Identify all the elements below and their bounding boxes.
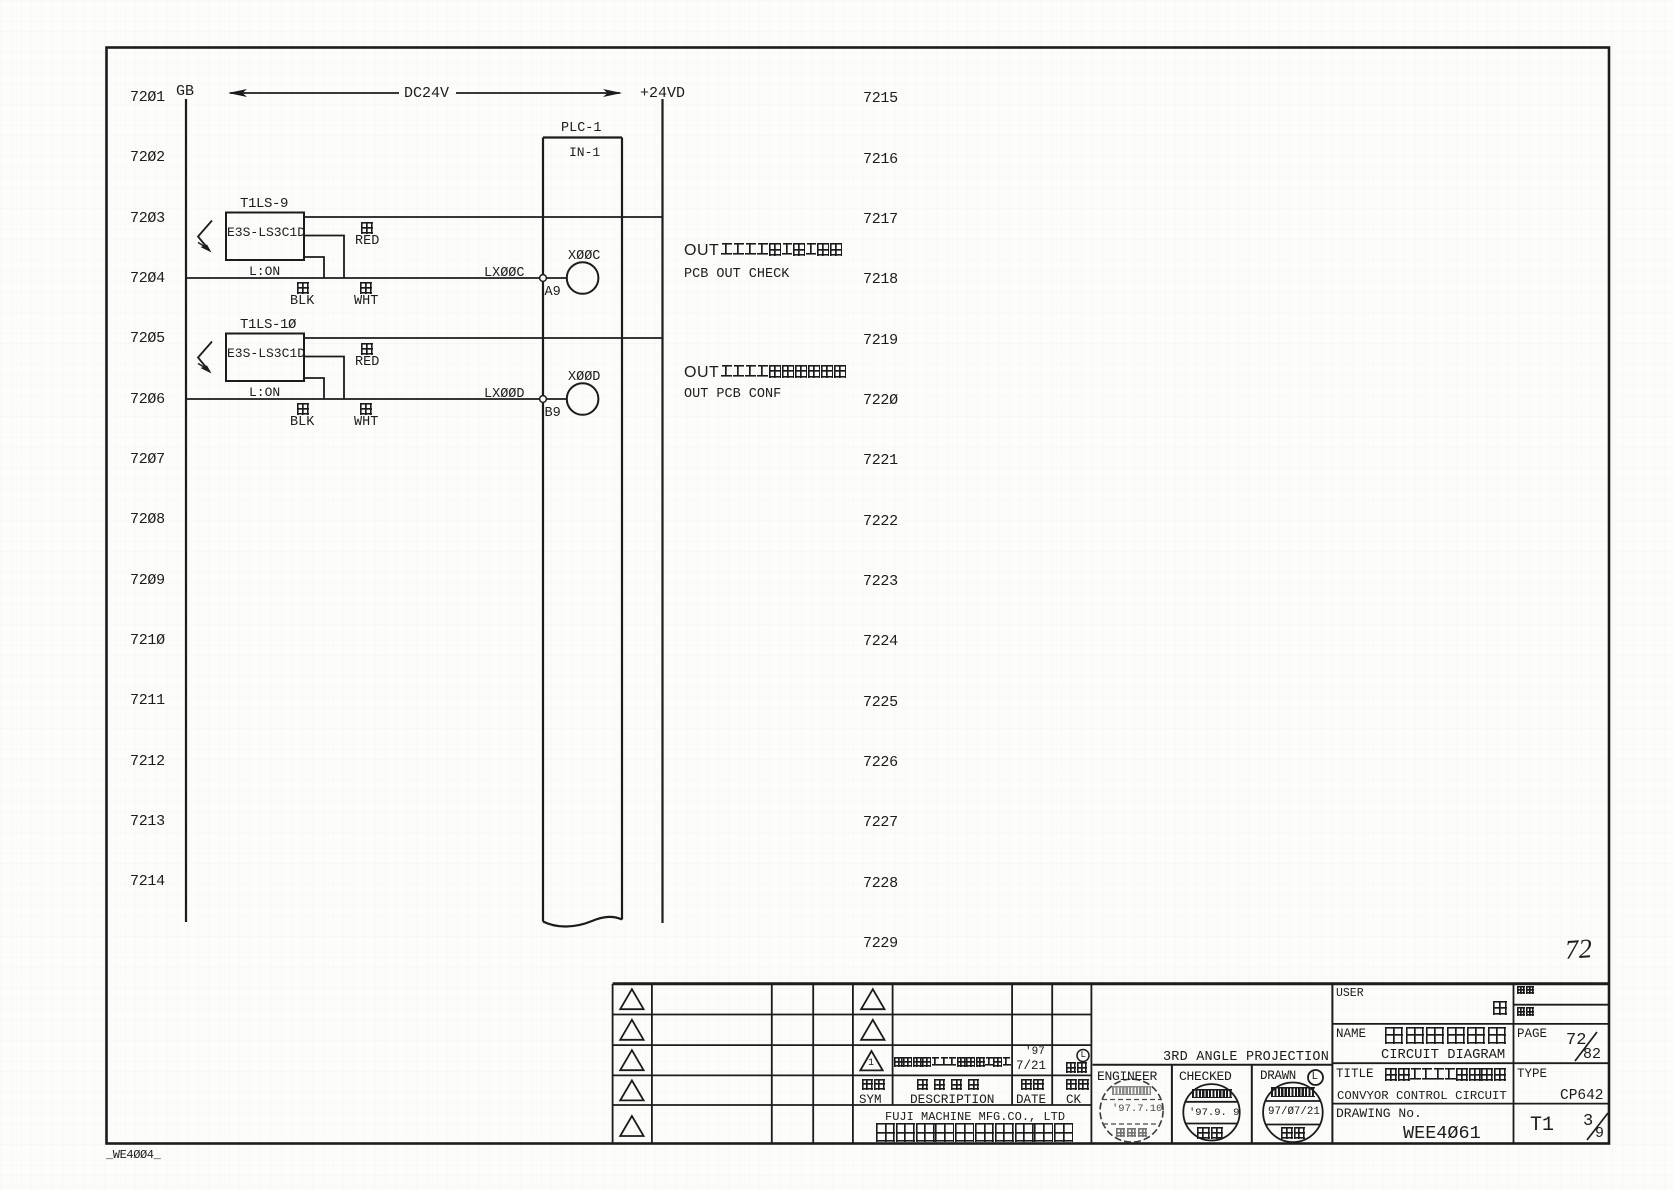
label aka RED sensor1 [361, 222, 373, 234]
line number 7229 [863, 936, 898, 951]
note OUT conveyor kiban tochaku kakunin (JP) [684, 365, 846, 381]
wire WHT sensor2 [304, 357, 344, 400]
line number 7226 [863, 755, 898, 770]
line number 7221 [863, 453, 898, 468]
label GB [176, 84, 194, 99]
company fuji kikai seizou kabushiki gaisha (JP) [876, 1123, 1073, 1143]
revision triangle R2 [861, 1020, 884, 1040]
line number 7219 [863, 333, 898, 348]
rev1 date '97 7/21 [1025, 1047, 1045, 1058]
page 72 over 82 [1566, 1032, 1586, 1049]
line number 7222 [863, 514, 898, 529]
line number 7211 [130, 693, 165, 708]
header ENGINEER [1097, 1070, 1157, 1083]
line number 7220 [863, 393, 898, 408]
title block top rule [613, 982, 1609, 985]
field bunban (JP) [1517, 986, 1534, 995]
line number 7212 [130, 754, 165, 769]
label T1LS-9 [240, 197, 288, 211]
label shiro WHT sensor2 [360, 403, 372, 415]
value E3S-LS3C1D sensor1 [227, 226, 305, 239]
rev1 CK L mark circle [1077, 1050, 1089, 1062]
sensor T1LS-10 beam arrow [198, 342, 212, 374]
line number 7201 [130, 90, 165, 105]
sheet fraction slash [1587, 1113, 1608, 1140]
label X00D [568, 371, 600, 385]
line number 7210 [130, 633, 165, 648]
wire node to lamp X00C [546, 277, 566, 279]
line number 7204 [130, 271, 165, 286]
type CP642 [1560, 1089, 1604, 1104]
line number 7227 [863, 815, 898, 830]
field DRAWING No. [1336, 1107, 1422, 1120]
stamp CHECKED contents [1192, 1089, 1232, 1098]
line number 7203 [130, 211, 165, 226]
input circle X00D [567, 383, 599, 415]
wire RED row 7203 [304, 216, 663, 218]
revision triangle R1 [861, 989, 884, 1009]
line number 7228 [863, 876, 898, 891]
drawn L letter [1312, 1072, 1319, 1083]
stamp DRAWN contents [1271, 1087, 1315, 1097]
label kuro BLK sensor1 [297, 282, 309, 294]
denki kairo senzu (JP) [1385, 1027, 1506, 1044]
label kuro BLK sensor2 [297, 403, 309, 415]
kiban conveyor seigyo kairo (JP) [1385, 1068, 1506, 1081]
header kigou SYM [862, 1079, 885, 1090]
line number 7215 [863, 91, 898, 106]
revision triangle L5 [620, 1116, 643, 1136]
wire BLK sensor1 [304, 257, 324, 278]
PLC-1 IN-1 column box [543, 138, 622, 927]
drawing number WEE4061 [1403, 1125, 1481, 1144]
revision triangle L3 [620, 1050, 643, 1070]
header CHECKED [1179, 1070, 1232, 1083]
label DC24V [404, 86, 449, 101]
field TITLE [1336, 1068, 1374, 1081]
note PCB OUT CHECK [684, 268, 789, 282]
stamp DRAWN [1263, 1083, 1323, 1143]
pin B9 [545, 407, 561, 421]
note OUT conveyor haraidashi kakunin (JP) [684, 243, 842, 259]
tono (JP) [1493, 1001, 1507, 1015]
label aka RED sensor2 [361, 343, 373, 355]
wire row 7206 LX00D [186, 398, 540, 400]
bus +24VD right vertical [661, 99, 663, 923]
line number 7208 [130, 512, 165, 527]
rev1 number in triangle [868, 1059, 874, 1069]
header DRAWN [1260, 1070, 1296, 1083]
company FUJI MACHINE MFG.CO., LTD [885, 1111, 1065, 1123]
drawn L mark circle [1308, 1070, 1323, 1085]
header hizuke DATE [1021, 1079, 1044, 1090]
title section grid [1332, 984, 1609, 1144]
stamp CHECKED [1183, 1084, 1239, 1140]
revision triangle L2 [620, 1020, 643, 1040]
revision triangle R3 rev1 [860, 1051, 882, 1070]
field USER [1336, 988, 1364, 1000]
revision triangle L4 [620, 1080, 643, 1100]
line number 7213 [130, 814, 165, 829]
line number 7223 [863, 574, 898, 589]
wire BLK sensor2 [304, 378, 324, 399]
sensor T1LS-10 body [226, 334, 304, 382]
rev1 description JP [894, 1057, 1011, 1068]
line number 7225 [863, 695, 898, 710]
header teisei kiroku DESCRIPTION [917, 1079, 979, 1090]
label LX00C [484, 267, 525, 281]
wire WHT sensor1 [304, 236, 344, 279]
pin A9 [545, 286, 561, 300]
sensor T1LS-9 beam arrow [198, 221, 212, 253]
line number 7217 [863, 212, 898, 227]
label L:ON sensor1 [249, 265, 280, 278]
rev1 CK Esaka (JP) [1066, 1062, 1087, 1073]
drawing code _WE4004_ [106, 1149, 160, 1161]
label T1LS-10 [240, 318, 296, 332]
stamp ENGINEER contents [1112, 1086, 1151, 1095]
field PAGE [1517, 1028, 1547, 1041]
label +24VD [640, 86, 685, 101]
revision table left grid [613, 984, 853, 1144]
revision triangle L1 [620, 989, 643, 1009]
note OUT PCB CONF [684, 388, 781, 402]
label 3RD ANGLE PROJECTION [1163, 1051, 1329, 1065]
label CIRCUIT DIAGRAM [1381, 1049, 1505, 1063]
line number 7224 [863, 634, 898, 649]
wire RED row 7205 [304, 337, 663, 339]
line number 7206 [130, 392, 165, 407]
sheet T1 [1530, 1116, 1554, 1136]
sheet 3 over 9 [1583, 1113, 1593, 1130]
revision table right grid [853, 984, 1092, 1144]
label LX00D [484, 388, 525, 402]
line number 7214 [130, 874, 165, 889]
label IN-1 [569, 146, 600, 159]
line number 7202 [130, 150, 165, 165]
label L:ON sensor2 [249, 386, 280, 399]
bus GB left vertical [185, 99, 187, 922]
field NAME [1336, 1028, 1366, 1041]
label CONVYOR CONTROL CIRCUIT [1337, 1090, 1507, 1102]
line number 7216 [863, 152, 898, 167]
label shiro WHT sensor1 [360, 282, 372, 294]
wire row 7204 LX00C [186, 277, 540, 279]
field TYPE [1517, 1068, 1547, 1081]
wire node to lamp X00D [546, 398, 566, 400]
rev1 CK L letter [1081, 1051, 1086, 1060]
terminal node A9 [540, 275, 547, 282]
stamp ENGINEER [1100, 1079, 1163, 1142]
handwritten page number 72 [1564, 935, 1593, 964]
value E3S-LS3C1D sensor2 [227, 347, 305, 360]
line number 7209 [130, 573, 165, 588]
projection box [1093, 984, 1333, 1144]
header tantou CK [1066, 1079, 1089, 1090]
input circle X00C [567, 262, 599, 294]
terminal node B9 [540, 396, 547, 403]
field seiban (JP) [1517, 1007, 1534, 1016]
sensor T1LS-9 body [226, 213, 304, 261]
DC24V dimension arrow [228, 89, 622, 97]
label PLC-1 [561, 122, 602, 136]
page fraction slash [1575, 1032, 1597, 1061]
line number 7218 [863, 272, 898, 287]
label X00C [568, 250, 600, 264]
line number 7205 [130, 331, 165, 346]
line number 7207 [130, 452, 165, 467]
